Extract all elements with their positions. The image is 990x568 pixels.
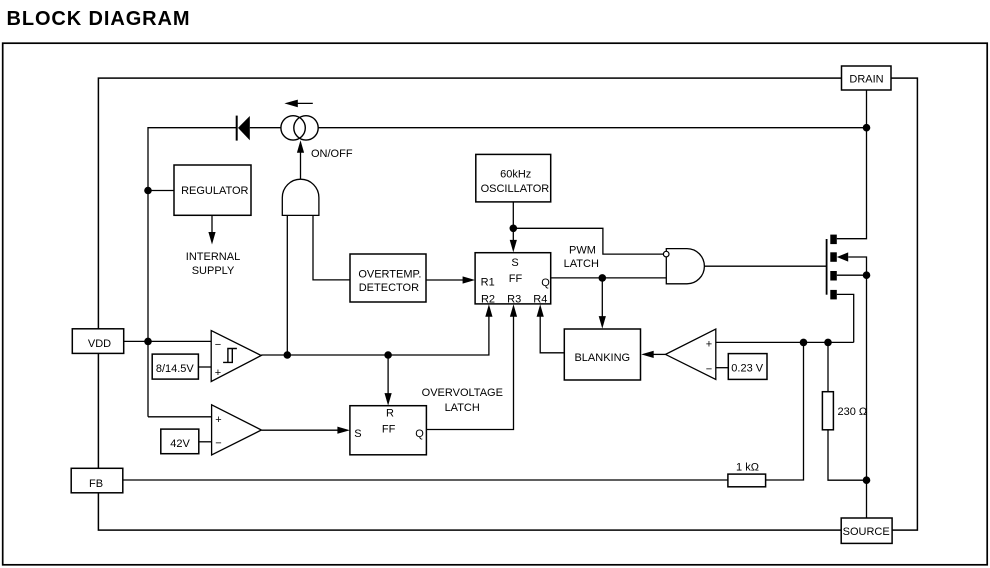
arrow current direction [284,100,312,108]
svg-text:42V: 42V [170,438,190,450]
wire overvoltage Q to R3 [426,316,513,429]
wire 42V comp output to S [261,427,350,434]
svg-text:SOURCE: SOURCE [843,526,890,538]
wire 230 top [827,342,829,391]
arrow internal supply [208,215,215,244]
wire 230 bottom [828,430,867,480]
svg-text:PWM: PWM [569,245,596,257]
label PWM LATCH [564,245,599,271]
reference 8/14.5V [152,354,198,379]
svg-text:+: + [215,367,221,379]
wire VDD tap [123,340,148,342]
terminal VDD [72,329,123,354]
svg-text:R: R [386,408,394,420]
node supply-VDD junction [144,338,152,346]
terminal SOURCE [841,518,892,543]
wire oscillator to gate G2 [513,228,663,254]
svg-text:BLOCK DIAGRAM: BLOCK DIAGRAM [7,8,191,30]
overvoltage flip-flop U9 [350,406,427,455]
node source sense junction [863,271,871,279]
svg-text:R4: R4 [533,293,547,305]
wire 42V comp plus input [148,416,212,418]
svg-text:0.23 V: 0.23 V [731,363,763,375]
comparator U6 current limit [666,329,716,379]
current source CS1 [281,116,318,140]
svg-text:LATCH: LATCH [564,258,599,270]
node supply-regulator junction [144,187,152,195]
wire regulator input [148,190,174,192]
wire drain connection [837,90,867,239]
overtemp detector U2 [350,254,426,302]
svg-text:FF: FF [382,424,396,436]
svg-text:LATCH: LATCH [445,402,480,414]
bubble gate G2 input [663,251,669,257]
node drain rail junction [863,124,871,132]
svg-text:OVERTEMP.: OVERTEMP. [358,268,421,280]
svg-text:FB: FB [89,478,103,490]
svg-text:BLANKING: BLANKING [574,352,630,364]
wire Q to blanking top [599,278,606,329]
node sense junction 1k [800,339,808,347]
svg-text:R1: R1 [481,277,495,289]
diode D1 [237,116,281,141]
terminal DRAIN [842,66,892,90]
comparator U7 hysteresis [211,331,261,382]
svg-text:R2: R2 [481,293,495,305]
svg-text:S: S [354,428,361,440]
blanking U5 [564,329,640,380]
wire gate G2 output [704,265,826,267]
regulator U1 [174,165,251,215]
svg-text:Q: Q [541,277,550,289]
label INTERNAL SUPPLY [186,251,240,277]
wire Q output to gate G2 [551,277,667,279]
arrow into R3 [510,304,517,317]
wire current source to drain rail [318,127,866,129]
svg-text:DRAIN: DRAIN [849,74,883,86]
svg-text:Q: Q [415,428,424,440]
resistor 1 kOhm [728,474,766,487]
label OVERVOLTAGE LATCH [422,387,503,414]
reference 0.23V [728,354,767,380]
pwm flip-flop U4 [475,253,551,304]
wire to overvoltage latch R [385,355,392,406]
wire 8/14.5V to plus input [198,366,211,368]
svg-text:230 Ω: 230 Ω [838,406,868,418]
oscillator U3 [476,154,551,202]
svg-text:−: − [706,364,712,376]
wire gate G1 left input [286,215,288,355]
svg-text:DETECTOR: DETECTOR [359,282,419,294]
svg-text:+: + [706,339,712,351]
wire 1k to sense [766,342,804,480]
wire comparator output to blanking [641,351,665,358]
svg-text:R3: R3 [507,293,521,305]
svg-text:−: − [215,339,221,351]
and-gate G1 on/off [282,179,319,215]
wire blanking output to R4 [537,304,565,353]
svg-text:−: − [215,438,221,450]
wire comparator plus input [716,341,854,343]
wire 42V to minus input [199,441,212,443]
wire supply vertical [148,128,236,417]
wire gate G1 right input from overtemp [313,215,350,280]
arrow into R2 [485,304,492,317]
svg-text:8/14.5V: 8/14.5V [156,363,195,375]
and-gate G2 pwm [666,249,704,284]
svg-text:OVERVOLTAGE: OVERVOLTAGE [422,387,503,399]
comparator U8 overvoltage [212,405,262,455]
wire hysteresis minus input [148,340,211,342]
wire hysteresis output [261,316,489,355]
wire FB to 1k [123,479,728,481]
svg-text:SUPPLY: SUPPLY [192,265,235,277]
node overvoltage junction [384,351,392,359]
IC boundary [98,78,917,530]
node oscillator junction [510,225,518,233]
node source junction [863,476,871,484]
svg-text:FF: FF [509,273,523,285]
mosfet Q1 [827,235,849,300]
svg-text:+: + [215,414,221,426]
svg-text:ON/OFF: ON/OFF [311,148,353,160]
svg-text:60kHz: 60kHz [500,169,531,181]
wire overtemp output to R1 [426,276,475,283]
node hysteresis-gate junction [284,351,292,359]
terminal FB [71,468,123,493]
wire source sense stub [837,274,867,276]
reference 42V [161,429,199,454]
svg-text:OSCILLATOR: OSCILLATOR [481,183,550,195]
resistor 230 Ohm [822,392,833,430]
node sense junction 230 [824,339,832,347]
wire ON/OFF control arrow [297,140,304,179]
svg-text:VDD: VDD [88,338,111,350]
wire body diode connection [848,257,866,519]
arrow into S input [510,240,517,253]
wire oscillator output [512,202,514,241]
svg-text:1 kΩ: 1 kΩ [736,462,759,474]
node Q output junction [599,274,607,282]
wire comparator minus input [716,367,729,369]
svg-text:S: S [511,257,518,269]
svg-text:INTERNAL: INTERNAL [186,251,240,263]
svg-text:REGULATOR: REGULATOR [181,185,248,197]
wire source down [837,294,854,342]
